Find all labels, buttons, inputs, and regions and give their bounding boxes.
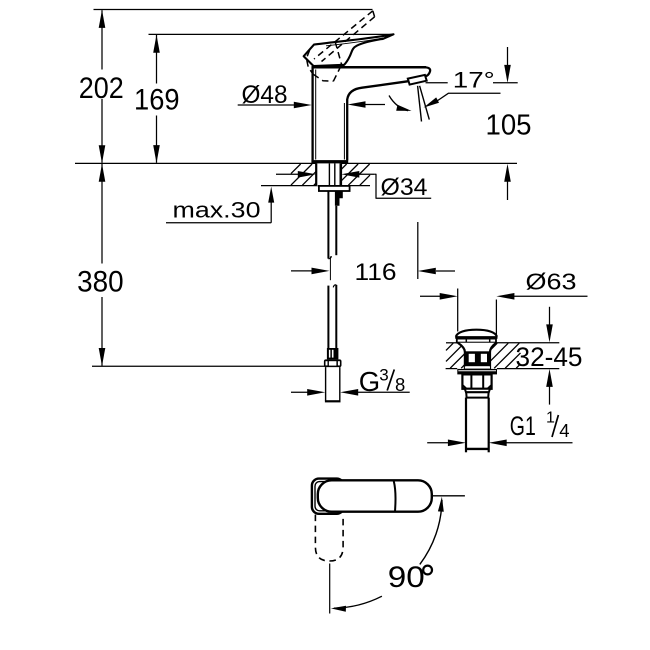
wire 17deg arc: [389, 96, 408, 111]
dim G114 left arrow: [448, 440, 466, 447]
dim Ø34 right line: [358, 173, 374, 175]
dim Ø63 left arrow: [440, 293, 458, 300]
dim 380 line lower: [101, 297, 103, 366]
wire drain deck bottom right: [497, 368, 559, 370]
lever raised dashed right edge: [333, 65, 341, 82]
lever raised dashed top edge: [314, 11, 373, 59]
dim G38 right arrow: [340, 389, 358, 396]
drain white gap above flange: [465, 366, 490, 368]
dim 116 right line: [436, 270, 455, 272]
svg-text:4: 4: [559, 420, 569, 441]
faucet column left outer edge: [311, 67, 313, 160]
wire deck/basin top line: [75, 162, 517, 164]
dim Ø48 left arrow: [294, 102, 312, 109]
drain tailpipe bottom: [465, 448, 489, 450]
label 90deg degree: [423, 566, 432, 575]
dim 105 arrow up: [504, 164, 511, 182]
dim max.30 riser: [270, 200, 272, 223]
drain hex nut: [462, 374, 491, 388]
dim 105 line upper: [507, 47, 509, 74]
dim 116 right arrow: [418, 268, 436, 275]
lever raised dashed bottom face: [313, 74, 333, 81]
wire 202 top extension line: [94, 9, 373, 11]
mounting washer: [319, 186, 350, 191]
drain hex chamfer left: [462, 385, 466, 389]
hose connector slot r: [338, 361, 340, 365]
svg-text:105: 105: [486, 110, 532, 142]
lever base band: [314, 64, 344, 68]
svg-text:G1: G1: [510, 411, 536, 441]
svg-text:169: 169: [134, 83, 180, 116]
lever top view arm: [318, 480, 432, 511]
faucet column left inner edge: [315, 70, 317, 160]
drain skirt tick left: [465, 339, 467, 343]
wire water stream line 1: [418, 86, 422, 122]
shank right edge: [339, 163, 342, 185]
drain deck hatching right: [490, 343, 497, 350]
dim 202 line upper: [101, 10, 103, 69]
svg-text:32-45: 32-45: [516, 342, 583, 372]
dim 32-45 arrow up: [546, 369, 553, 387]
drain collar lower: [466, 392, 488, 397]
dim 32-45 upper line: [549, 307, 551, 330]
drain hex chamfer right: [488, 385, 492, 389]
dim G114 right arrow: [489, 440, 507, 447]
lever top view cap outer: [312, 479, 344, 514]
dim 169 line upper: [156, 35, 158, 84]
hose lower segment left: [327, 286, 329, 348]
dim 116 left arrow: [312, 268, 330, 275]
deck hatching right: [341, 164, 346, 169]
wire 90deg reference line: [432, 495, 465, 497]
hose break hook upper: [328, 256, 331, 259]
dim max.30 arrow up: [268, 187, 274, 203]
label G114 slash: [552, 415, 558, 437]
hose upper segment left: [327, 191, 329, 258]
wire drain deck top right: [496, 342, 559, 344]
hose connector slot l: [326, 361, 328, 365]
wire deck/basin bottom line: [261, 185, 370, 187]
lever handle inner line: [326, 37, 390, 46]
lever handle solid: [304, 34, 394, 66]
G38 tube bottom: [325, 400, 341, 402]
lever top view divider: [394, 481, 396, 511]
dim Ø34 left line: [276, 173, 298, 175]
faucet column right inner edge: [343, 103, 345, 160]
dim 169 arrow up: [153, 35, 160, 53]
wire 169 top extension line: [149, 33, 394, 35]
svg-text:G: G: [359, 366, 380, 397]
svg-text:max.30: max.30: [173, 198, 261, 223]
svg-text:8: 8: [395, 374, 405, 395]
hose connector flange: [324, 359, 342, 367]
wire drain deck bottom left: [446, 368, 458, 370]
dim 90deg arrow up: [438, 497, 444, 512]
drain collar upper: [465, 389, 490, 393]
dim 32-45 arrow down: [546, 324, 553, 342]
faucet spout front curve: [424, 67, 430, 76]
hose nipple: [335, 191, 343, 206]
svg-text:202: 202: [79, 72, 124, 105]
shank left edge: [315, 163, 317, 185]
dim 202 line lower: [101, 99, 103, 163]
drain body window left: [469, 354, 475, 362]
dim 380 arrow down: [99, 348, 106, 366]
hose crimp slot 2: [332, 350, 334, 358]
drain skirt tick right: [489, 339, 491, 343]
dim G38 left line: [291, 391, 309, 393]
wire Ø63 ext left: [457, 289, 459, 332]
lever raised dashed left face: [306, 50, 313, 74]
drain hex facet left: [470, 374, 472, 388]
dim Ø48 right line: [364, 104, 385, 106]
aerator: [408, 75, 427, 85]
dim 90deg arc upper: [420, 500, 442, 564]
wire drain deck top left: [446, 342, 458, 344]
hose crimp ferrule: [327, 348, 339, 359]
dim Ø63 right line: [513, 295, 588, 297]
hose crimp slot 1: [329, 350, 331, 358]
drain cap skirt: [457, 339, 496, 343]
dim 17deg leader arrow: [424, 97, 440, 107]
dim Ø63 left line: [420, 295, 441, 297]
drain dome base: [455, 336, 497, 339]
wire Ø34 leader corner: [374, 174, 431, 198]
dim G38 left arrow: [307, 389, 325, 396]
dim G38 right line: [356, 391, 410, 393]
dim Ø34 left arrow: [298, 171, 316, 178]
dim 169 line lower: [156, 116, 158, 163]
dim G114 right line: [505, 442, 573, 444]
threaded shank: [316, 163, 341, 185]
dim 32-45 lower line: [549, 381, 551, 405]
hose lower segment right: [335, 285, 337, 348]
hose inside shank right: [334, 163, 336, 185]
drain hex facet right: [482, 374, 484, 388]
wire hose-end extension line: [92, 365, 325, 367]
faucet body top edge: [312, 66, 427, 69]
hose break centerline: [329, 257, 331, 281]
hose upper segment right: [335, 206, 337, 255]
hose connector slot c: [329, 361, 337, 365]
hose inside shank left: [328, 163, 330, 185]
drain deck hatching left: [446, 343, 453, 350]
drain tailpipe left: [465, 398, 467, 453]
drain dome cap: [456, 330, 497, 337]
dim 90deg arrow left: [331, 606, 346, 612]
deck hatching left: [291, 164, 301, 174]
drain flange slit: [458, 370, 496, 372]
wire water stream line 2: [420, 86, 430, 120]
svg-text:116: 116: [355, 259, 397, 286]
faucet spout underside and inner corner: [347, 81, 408, 160]
drain tailpipe right: [488, 398, 490, 453]
dim 116 left line: [291, 270, 312, 272]
svg-text:1: 1: [546, 410, 555, 427]
drain body through deck: [458, 343, 496, 369]
dim 380 line upper: [101, 164, 103, 264]
hose break hook lower: [333, 285, 336, 288]
lever top view cap inner: [315, 482, 341, 511]
lever projection dashed: [315, 515, 343, 561]
dim Ø48 right arrow: [348, 101, 366, 108]
drain body window right: [481, 354, 487, 362]
dim 202 arrow up: [99, 10, 106, 28]
svg-text:Ø34: Ø34: [381, 174, 428, 201]
svg-text:3: 3: [379, 365, 388, 384]
drain body slot band: [465, 351, 490, 366]
dim 169 arrow down: [153, 145, 160, 163]
dim 105 line lower: [507, 176, 509, 200]
dim Ø48 leader line: [238, 104, 295, 106]
dim Ø34 right arrow: [341, 171, 359, 178]
dim Ø63 right arrow: [496, 293, 514, 300]
G38 tube left: [325, 367, 327, 401]
dim 202 arrow down: [99, 145, 106, 163]
G38 tube right: [339, 367, 341, 401]
dim 105 arrow down: [504, 65, 511, 83]
wire 116 extension line: [417, 222, 419, 279]
svg-text:380: 380: [77, 265, 124, 298]
svg-text:90: 90: [388, 561, 425, 594]
lever raised dashed inner edge: [335, 42, 341, 65]
lever raised dashed bottom edge: [322, 17, 375, 62]
faucet base plate: [311, 160, 348, 164]
svg-text:Ø63: Ø63: [526, 268, 577, 294]
dim 90deg arc lower: [334, 596, 382, 608]
lever projection centerline: [329, 564, 331, 614]
wire spout level line left: [426, 82, 448, 84]
label G38 slash: [387, 370, 394, 391]
svg-text:17°: 17°: [453, 67, 495, 92]
wire Ø63 ext right: [495, 300, 497, 337]
drain locknut flange: [457, 369, 497, 375]
wire 17deg leader: [437, 93, 501, 101]
dim 17deg arc arrow: [396, 105, 411, 111]
dim G114 left line: [427, 442, 448, 444]
dim 380 arrow up: [99, 164, 106, 182]
lever raised dashed tip: [373, 11, 375, 17]
wire max.30 underline: [166, 222, 271, 224]
wire spout level line right: [493, 82, 518, 84]
